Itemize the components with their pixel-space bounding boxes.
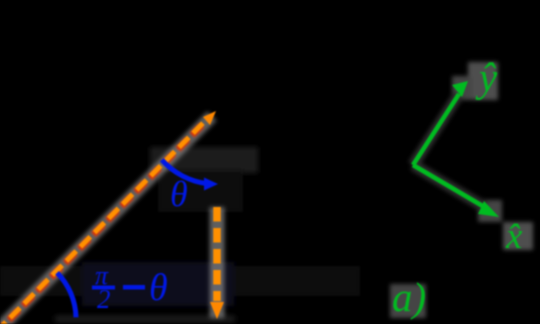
svg-text:x̂: x̂ [505,216,523,257]
svg-text:θ: θ [170,174,188,214]
svg-text:2: 2 [97,284,111,314]
svg-text:ŷ: ŷ [475,54,498,100]
svg-text:a): a) [392,274,426,320]
svg-text:θ: θ [149,267,168,309]
